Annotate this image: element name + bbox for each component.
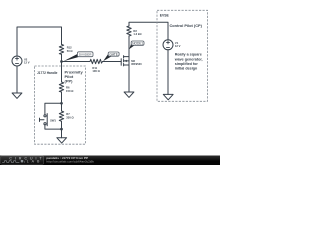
ground under V2: [12, 93, 22, 98]
label R7: [66, 112, 74, 120]
voltage source V1: [163, 40, 173, 50]
CircuitLab logo: [1, 156, 45, 164]
label V2: [24, 57, 30, 64]
svg-text:wave generator,: wave generator,: [174, 57, 203, 61]
label R12: [67, 46, 74, 53]
wire R11 to gate: [103, 61, 122, 63]
svg-text:M2: M2: [131, 59, 135, 63]
svg-text:R2: R2: [133, 29, 137, 33]
wire R2 top to V1: [129, 22, 168, 40]
ground under V1: [163, 94, 173, 99]
node flag GATE: [103, 52, 119, 61]
resistor R6: [59, 82, 63, 92]
svg-text:R12: R12: [67, 46, 72, 50]
footer bar: [0, 156, 220, 166]
node flag NODE1: [129, 41, 144, 49]
svg-text:R7: R7: [66, 112, 70, 116]
svg-text:EVSE: EVSE: [160, 13, 170, 17]
wire branch to switch SW1: [45, 103, 62, 114]
label R2: [133, 29, 142, 36]
wire V2 top to corner: [17, 27, 62, 56]
svg-text:http://circuitlab.com/c/p64ae3: http://circuitlab.com/c/p64ae3c2j6k: [46, 160, 94, 164]
wire R7 to bottom junction: [61, 121, 63, 129]
svg-text:initial design: initial design: [175, 67, 198, 71]
svg-text:NODE1: NODE1: [132, 42, 143, 46]
svg-text:V1: V1: [175, 41, 179, 45]
svg-text:Really a square: Really a square: [175, 53, 202, 57]
voltage source V2: [12, 56, 22, 66]
wire M2 drain to ground: [128, 65, 130, 92]
annotation Proximity Pilot: [65, 69, 84, 83]
junction R6 R7 switch: [60, 102, 63, 105]
svg-text:R6: R6: [66, 85, 70, 89]
wire bottom junction to ground: [61, 129, 63, 138]
svg-text:simplified for: simplified for: [175, 62, 199, 66]
ground under R7: [57, 138, 67, 143]
junction R7 switch ground: [60, 128, 63, 131]
svg-text:330 Ω: 330 Ω: [66, 116, 74, 120]
wire R6 to R7: [61, 92, 63, 111]
resistor R11: [90, 59, 103, 63]
wire divider junction to R11: [62, 61, 91, 63]
label M2: [131, 59, 142, 66]
resistor R2: [127, 26, 131, 36]
label R6: [66, 85, 74, 93]
annotation square wave note: [174, 53, 203, 71]
svg-text:(PP): (PP): [65, 78, 74, 83]
junction at divider node: [60, 60, 63, 63]
wire divider junction down to R6: [61, 62, 63, 83]
svg-text:DIVIDER: DIVIDER: [79, 53, 92, 57]
switch SW1: [40, 114, 48, 126]
label R11: [92, 66, 100, 73]
svg-text:V2: V2: [24, 57, 28, 61]
enclosure J1772 Handle / Proximity Pilot: [35, 66, 86, 144]
wire switch bottom to junction: [45, 125, 62, 129]
svg-text:GATE: GATE: [109, 52, 117, 56]
svg-text:LAB: LAB: [27, 160, 42, 164]
ground under M2: [124, 92, 134, 97]
wire V2 bottom: [16, 66, 18, 93]
resistor R7: [59, 111, 63, 121]
svg-text:J1772 Handle: J1772 Handle: [37, 71, 58, 75]
MOSFET arrow: [124, 60, 127, 62]
wire M2 source up to R2: [128, 36, 130, 57]
svg-text:R11: R11: [92, 66, 97, 70]
svg-text:Control Pilot (CP): Control Pilot (CP): [170, 23, 203, 28]
wire V1 bottom to ground: [167, 50, 169, 95]
svg-text:150 Ω: 150 Ω: [66, 89, 74, 93]
enclosure EVSE: [157, 10, 208, 101]
resistor R12: [59, 44, 63, 54]
wire R12 to divider junction: [61, 54, 63, 61]
label V1: [175, 41, 181, 48]
node flag DIVIDER: [63, 52, 93, 62]
svg-text:SW1: SW1: [50, 119, 56, 123]
transistor M2 IRF9530: [121, 56, 129, 66]
